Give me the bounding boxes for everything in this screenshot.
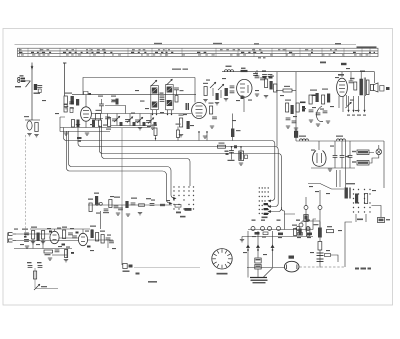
osc coupling coil	[186, 103, 190, 110]
AF wiring harness	[8, 229, 114, 258]
output transformer T2	[360, 72, 369, 97]
screen feed choke	[294, 131, 298, 138]
RF tube V1	[81, 95, 92, 122]
wire L2	[99, 126, 281, 212]
L1 arrow	[268, 205, 272, 208]
dashed down-lead to gram input	[24, 135, 26, 237]
voltage selector circle 1	[304, 197, 308, 232]
IF cluster B resistors	[309, 89, 331, 127]
psu ground drops	[337, 170, 341, 187]
Sk2 internal resistors	[355, 194, 368, 204]
osc trimmer 1	[262, 70, 267, 78]
header rule above table	[15, 44, 357, 46]
mains selector wire	[308, 184, 344, 190]
table text row3	[21, 54, 368, 57]
antenna arrow	[31, 63, 34, 71]
IF transformer T1 unit 2	[166, 79, 174, 110]
T1 right caps	[174, 88, 183, 102]
screen feed vertical	[295, 72, 297, 141]
speaker field oval	[284, 261, 299, 272]
V1 cathode resistors	[72, 120, 102, 128]
T1 middle caps	[160, 93, 165, 102]
V4 type label	[338, 74, 344, 76]
V4 pins down	[339, 95, 347, 112]
grid line	[92, 113, 192, 115]
decoupling cap 1	[225, 147, 235, 160]
transformer secondary leads	[349, 96, 365, 111]
band switch Sk1 middle block	[259, 187, 269, 214]
tuning gang cap 2	[125, 114, 135, 127]
wire L3	[102, 126, 190, 187]
psu lower row circle	[299, 223, 303, 227]
AF bus components	[96, 197, 166, 217]
V5 grid components	[62, 227, 77, 239]
M label	[289, 256, 295, 259]
tuning gang cap 4	[146, 114, 156, 127]
gram resistor grid	[31, 227, 45, 244]
IF cluster A resistors	[285, 100, 299, 131]
osc section divider	[194, 78, 196, 103]
osc tube V3 big	[237, 79, 252, 99]
V1 input components	[64, 99, 79, 113]
input coupling cluster	[34, 84, 43, 94]
feedback vertical	[100, 211, 102, 229]
antenna switch diagonal	[26, 81, 31, 87]
L2 arrow	[268, 210, 272, 213]
osc right resistors	[264, 79, 273, 98]
mixer tube V2	[192, 103, 207, 119]
row right riser	[313, 219, 316, 230]
lamp wiring	[369, 153, 379, 164]
value labels oscillator section	[206, 76, 284, 122]
L5 arrow	[169, 202, 173, 205]
Sk1 middle label	[262, 217, 268, 219]
mains switch Sk2 dotted block	[353, 189, 371, 213]
main AF bus	[88, 204, 172, 206]
Sk1 label left	[180, 216, 186, 218]
dial lamp arrow 2	[256, 231, 260, 258]
osc coil left	[224, 88, 228, 101]
osc coil	[225, 66, 234, 72]
B+ DC rail	[296, 140, 384, 142]
psu mid resistor chain	[314, 222, 322, 251]
antenna lead wire	[31, 65, 33, 120]
psu bottom corner wire	[345, 214, 366, 267]
voltage selector circle 2	[318, 190, 322, 232]
mains transformer coil	[345, 183, 356, 199]
psu top row link	[302, 221, 320, 224]
ground bus	[60, 131, 110, 133]
osc trimmer 2	[268, 75, 273, 79]
detector marks	[300, 95, 316, 112]
V4 anode comps	[349, 72, 357, 91]
AVC resistor	[106, 118, 111, 130]
value labels AF section	[14, 196, 170, 251]
lead labels	[347, 115, 366, 116]
V1 left box	[60, 117, 65, 132]
L0 arrow	[268, 200, 272, 203]
V1 cathode link	[91, 118, 103, 120]
AF extra marks	[24, 231, 91, 254]
band switch Sk1 left block	[173, 186, 194, 209]
IF transformer T1 unit 1	[151, 80, 159, 110]
wire L4	[69, 131, 176, 198]
osc left resistors	[203, 83, 219, 105]
aerial coil set 1	[64, 93, 74, 109]
choke 1	[299, 136, 309, 141]
header rule text bits	[154, 43, 341, 45]
tuning gang cap 3	[135, 114, 145, 127]
V1 bottom drop	[85, 121, 87, 127]
AF top rail	[30, 228, 90, 230]
psu feed to transformer	[345, 141, 347, 188]
V7 feed	[318, 141, 320, 150]
psu ground bus	[311, 168, 355, 171]
tuning gang cap 1	[112, 114, 122, 127]
lamp label block	[251, 280, 268, 284]
contact row resistors	[255, 232, 313, 235]
V4 cathode marks	[346, 102, 352, 108]
feedback cluster above AF	[88, 193, 109, 214]
switch contact row	[248, 227, 313, 231]
lead arrowheads	[347, 110, 365, 113]
wire L5	[67, 131, 172, 203]
AVC long vertical	[121, 205, 123, 265]
gram input plugs	[9, 233, 17, 243]
L1 junction blob	[234, 145, 237, 148]
Sk1 feed vertical	[284, 214, 286, 230]
detector diode curve	[316, 106, 323, 122]
L4 arrow	[173, 197, 177, 200]
bottom rail left	[134, 267, 200, 269]
gram input caps	[22, 229, 29, 242]
osc left trimmer a	[210, 82, 216, 96]
small mark	[148, 281, 157, 283]
wire L1	[78, 128, 278, 207]
gang left cap	[105, 114, 110, 126]
dial lamp arrow 3	[271, 231, 275, 268]
dial lamp arrow 1	[246, 231, 250, 278]
bottom rail to speaker	[247, 267, 284, 269]
lamp common bar	[250, 268, 273, 278]
small fuse marks	[258, 57, 266, 58]
value labels RF section	[42, 90, 194, 127]
scanned page edge border	[3, 29, 393, 306]
AF lower caps	[27, 262, 58, 290]
osc output resistor	[276, 86, 296, 92]
dial circle	[212, 249, 232, 275]
dropper box 1	[352, 150, 369, 155]
title table frame	[18, 48, 379, 56]
osc padder resistor	[241, 68, 248, 73]
wire from Sk1 to row	[281, 207, 295, 214]
L0 stub a	[152, 125, 157, 141]
RF cathode rail	[60, 127, 150, 129]
osc left trimmer b	[218, 84, 224, 98]
dashed wire speaker to psu	[300, 266, 346, 268]
lead-in resistor pair	[24, 116, 40, 137]
ground symbols row	[64, 127, 207, 138]
wire L0	[63, 128, 274, 201]
electrolytic 1	[333, 141, 338, 168]
tone cluster	[123, 264, 140, 275]
oscillator top rail	[222, 71, 375, 73]
psu right vertical	[383, 141, 385, 188]
coupling box	[96, 110, 102, 120]
electrolytic 3	[348, 141, 353, 168]
rectifier tube V7	[312, 151, 326, 167]
AF tube V5	[50, 231, 59, 243]
T1 bottom pins	[153, 110, 172, 114]
osc tube pins	[243, 96, 245, 112]
T1 pin dots	[152, 114, 172, 115]
L0 stub osc	[231, 114, 241, 141]
RF box top rail	[83, 78, 195, 95]
value labels PSU section	[309, 146, 376, 254]
volume control vertical	[121, 128, 123, 205]
table label top-right	[357, 46, 377, 48]
label 545	[15, 86, 21, 87]
gang feed cluster	[111, 96, 119, 105]
Sk1 left block contacts	[175, 205, 192, 214]
long vertical osc to switch	[276, 72, 278, 147]
speaker terminals	[380, 86, 390, 92]
gang top feed	[105, 106, 126, 114]
antenna input top mark	[63, 63, 66, 97]
V2 right components	[209, 103, 217, 129]
choke 2	[336, 136, 346, 141]
psu right resistor	[327, 226, 334, 233]
contact row left stub	[240, 237, 313, 242]
table text row2	[19, 52, 375, 53]
Sk1 middle contact blobs	[264, 203, 269, 215]
junction dots	[231, 146, 242, 148]
V2 below resistors	[179, 115, 190, 130]
osc caps	[230, 86, 235, 93]
L0 stub d	[206, 131, 208, 141]
selector comp	[304, 215, 308, 222]
B+ upper rail right	[374, 72, 376, 83]
small trimmer	[98, 96, 104, 114]
decoupling electrolytic	[239, 147, 248, 165]
value labels switch row	[243, 236, 311, 255]
osc feedback coil	[274, 84, 277, 92]
table column dividers	[20, 48, 371, 56]
AF tube V6	[78, 233, 87, 245]
V6 anode components	[90, 226, 114, 244]
bundle label	[77, 137, 82, 142]
IF tube V4	[337, 72, 348, 97]
Sk2 label	[357, 219, 363, 221]
pilot lamp	[376, 145, 382, 155]
B4 label	[320, 62, 326, 64]
dropper box 2	[352, 161, 369, 166]
AGC line cap on wire	[218, 143, 226, 149]
contact row top labels	[252, 220, 311, 221]
lamp resistor boxes	[255, 258, 261, 278]
mains cord wire	[372, 206, 382, 218]
A51 label	[341, 63, 347, 65]
psu lower resistors	[292, 225, 310, 237]
psu cap stack	[317, 250, 339, 268]
RF anode rail	[72, 94, 196, 96]
table text row1	[19, 48, 337, 51]
L0 stub c	[198, 131, 200, 141]
value labels IF section	[293, 68, 365, 117]
osc trimmer 3	[253, 72, 258, 76]
rail ground	[76, 125, 80, 127]
label KURZWELLEN	[172, 69, 188, 70]
mains plug comp	[378, 218, 391, 223]
L0 stub b	[176, 124, 181, 141]
print number label	[355, 268, 371, 270]
aerial coil set 2	[84, 92, 92, 96]
gang bottom rail	[111, 125, 153, 127]
AF bottom components	[25, 246, 68, 262]
antenna terminals	[18, 75, 31, 82]
osc right caps	[255, 70, 265, 96]
speaker	[370, 83, 378, 92]
electrolytic 2	[340, 141, 345, 168]
